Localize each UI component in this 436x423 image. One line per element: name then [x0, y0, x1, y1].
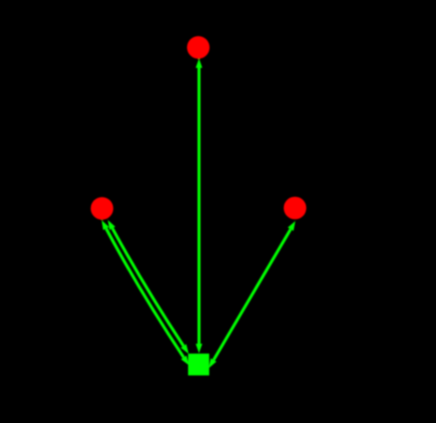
node left circle (red)	[91, 197, 114, 220]
arrowhead E3 at box	[181, 344, 189, 354]
arrowhead E3 at left circle	[108, 220, 115, 230]
edge E1 top-circle to box (vertical)	[198, 67, 201, 345]
node right circle (red)	[284, 197, 307, 220]
arrowhead E4 at left circle	[102, 220, 109, 230]
arrowhead E2 at right circle	[288, 221, 296, 231]
node top circle (red)	[187, 36, 210, 59]
edge E3 left-circle to box top-left corner (upper of pair)	[112, 228, 183, 346]
arrowhead E4 at box	[181, 356, 189, 366]
arrowhead E1 at box	[196, 344, 203, 354]
arrowhead E2 at box	[209, 358, 217, 368]
node box (green square, bottom center)	[188, 354, 209, 376]
edge E4 left-circle to box left edge (lower of pair)	[106, 229, 184, 358]
edge E2 right-circle to box	[214, 229, 291, 360]
arrowhead E1 at top circle	[196, 58, 203, 68]
